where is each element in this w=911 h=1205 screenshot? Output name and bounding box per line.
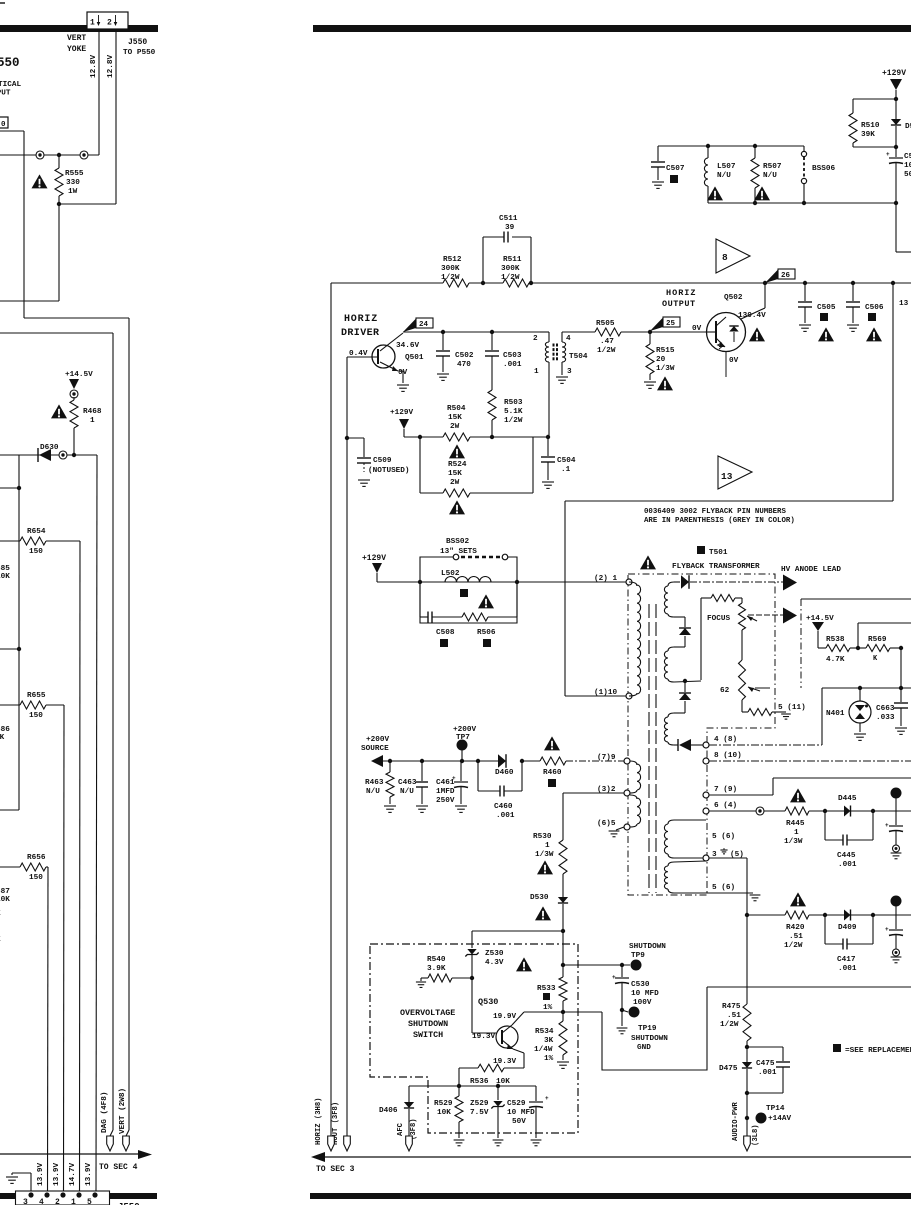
svg-text:12.8V: 12.8V [90,55,98,78]
svg-text:HORIZ: HORIZ [344,314,378,325]
svg-text:1/2W: 1/2W [720,1021,739,1029]
svg-text:R533: R533 [537,985,556,993]
svg-text:8 (10): 8 (10) [714,752,742,760]
svg-text:39K: 39K [861,131,875,139]
svg-text:0K: 0K [0,734,5,742]
svg-text:39: 39 [505,224,515,232]
svg-text:2: 2 [107,19,112,28]
svg-text:1%: 1% [543,1004,553,1012]
svg-text:+129V: +129V [882,69,906,78]
svg-text:R510: R510 [861,122,880,130]
svg-text:T501: T501 [709,549,728,557]
svg-text:OVERVOLTAGE: OVERVOLTAGE [400,1008,455,1018]
svg-text:330: 330 [66,179,80,187]
svg-text:(3L8): (3L8) [752,1124,760,1146]
svg-text:C445: C445 [837,852,856,860]
svg-text:J550: J550 [128,38,147,47]
svg-text:10K: 10K [0,573,10,581]
svg-text:R534: R534 [535,1028,554,1036]
svg-text:C511: C511 [499,215,518,223]
svg-text:R655: R655 [27,692,46,700]
svg-text:SHUTDOWN: SHUTDOWN [408,1019,448,1029]
svg-text:.1: .1 [561,466,571,474]
svg-text:1/3W: 1/3W [535,851,554,859]
svg-text:.47: .47 [600,338,614,346]
svg-text:25: 25 [666,320,676,328]
svg-text:N/U: N/U [400,788,414,796]
svg-text:.51: .51 [789,933,803,941]
svg-text:1: 1 [90,19,95,28]
svg-text:C663: C663 [876,705,895,713]
svg-text:19.3V: 19.3V [472,1033,495,1041]
svg-text:C503: C503 [503,352,522,360]
svg-text:BSS02: BSS02 [446,538,469,546]
svg-text:VERT (2W8): VERT (2W8) [119,1088,127,1134]
svg-text:+129V: +129V [362,554,386,563]
svg-text:1: 1 [71,1198,76,1205]
svg-text:+14.5V: +14.5V [806,615,834,623]
svg-text:AFC: AFC [397,1122,405,1136]
svg-text:7.5V: 7.5V [470,1109,489,1117]
svg-text:6 (4): 6 (4) [714,802,737,810]
svg-text:C505: C505 [817,304,836,312]
svg-text:Q501: Q501 [405,354,424,362]
svg-text:4: 4 [566,335,571,343]
svg-text:(2) 1: (2) 1 [594,575,617,583]
svg-text:C417: C417 [837,956,856,964]
svg-text:19.9V: 19.9V [493,1013,516,1021]
svg-text:TP9: TP9 [631,952,645,960]
svg-text:R460: R460 [543,769,562,777]
svg-text:TP19: TP19 [638,1025,657,1033]
svg-text:L507: L507 [717,163,736,171]
svg-text:N/U: N/U [717,172,731,180]
svg-text:R468: R468 [83,408,102,416]
svg-text:130.4V: 130.4V [738,312,766,320]
svg-text:62: 62 [720,687,730,695]
svg-text:D530: D530 [530,894,549,902]
svg-text:(6)5: (6)5 [597,820,616,828]
svg-text:.001: .001 [758,1069,777,1077]
svg-text:+: + [885,926,889,933]
svg-text:OUTPUT: OUTPUT [662,299,696,309]
svg-text:Q530: Q530 [478,997,498,1007]
svg-text:C508: C508 [436,629,455,637]
svg-text:1/2W: 1/2W [784,942,803,950]
svg-text:0V: 0V [398,369,408,377]
svg-text:T504: T504 [569,353,588,361]
svg-text:C51: C51 [904,153,911,161]
svg-text:.001: .001 [838,861,857,869]
svg-text:1/2W: 1/2W [441,274,460,282]
svg-text:R475: R475 [722,1003,741,1011]
svg-text:SWITCH: SWITCH [413,1030,443,1040]
svg-text:+: + [545,1095,549,1102]
svg-text:D406: D406 [379,1107,398,1115]
svg-text:=SEE REPLACEMENT: =SEE REPLACEMENT [845,1047,911,1055]
svg-text:8: 8 [722,252,728,263]
svg-text:687: 687 [0,888,10,896]
svg-text:1/2W: 1/2W [504,417,523,425]
svg-text:+: + [612,974,616,981]
svg-text:14.7V: 14.7V [69,1163,77,1186]
svg-text:0: 0 [1,121,6,129]
svg-text:C463: C463 [398,779,417,787]
svg-text:GND: GND [637,1044,651,1052]
svg-text:R420: R420 [786,924,805,932]
svg-text:N/U: N/U [366,788,380,796]
svg-text:BSS06: BSS06 [812,165,835,173]
svg-text:0036409 3002 FLYBACK PIN NUMBE: 0036409 3002 FLYBACK PIN NUMBERS [644,508,786,516]
svg-text:R504: R504 [447,405,466,413]
svg-text:5.1K: 5.1K [504,408,523,416]
svg-text:C475: C475 [756,1060,775,1068]
svg-text:D460: D460 [495,769,514,777]
svg-text:R512: R512 [443,256,462,264]
svg-text:10K: 10K [437,1109,451,1117]
svg-text:250V: 250V [436,797,455,805]
svg-text:R540: R540 [427,956,446,964]
svg-text:150: 150 [29,874,43,882]
svg-text:R507: R507 [763,163,782,171]
svg-text:3K: 3K [544,1037,554,1045]
svg-text:TICAL: TICAL [0,81,21,89]
svg-text:1: 1 [545,842,550,850]
svg-text:15K: 15K [448,414,462,422]
svg-text:4: 4 [39,1198,44,1205]
svg-text:150: 150 [29,712,43,720]
svg-text:+200V: +200V [366,736,389,744]
svg-text:15K: 15K [448,470,462,478]
svg-text:13: 13 [899,300,909,308]
svg-text:FLYBACK TRANSFORMER: FLYBACK TRANSFORMER [672,563,760,571]
svg-text:3.9K: 3.9K [427,965,446,973]
svg-text:C529: C529 [507,1100,526,1108]
svg-text:R529: R529 [434,1100,453,1108]
svg-text:2W: 2W [450,479,460,487]
svg-text:R505: R505 [596,320,615,328]
svg-text:C507: C507 [666,165,685,173]
svg-text:N/U: N/U [763,172,777,180]
svg-text:1W: 1W [68,188,78,196]
svg-text:300K: 300K [441,265,460,273]
svg-text:R445: R445 [786,820,805,828]
svg-text:(7)9: (7)9 [597,754,616,762]
svg-text:1MFD: 1MFD [436,788,455,796]
svg-text:2: 2 [533,335,538,343]
svg-text:10K: 10K [0,896,10,904]
svg-text:3: 3 [567,368,572,376]
svg-text:24: 24 [419,321,429,329]
svg-text:YOKE: YOKE [67,45,86,54]
svg-text:686: 686 [0,726,10,734]
svg-text:TO SEC 4: TO SEC 4 [99,1163,138,1172]
svg-text:1/4W: 1/4W [534,1046,553,1054]
svg-text:300K: 300K [501,265,520,273]
svg-text:+: + [452,775,456,782]
svg-text:TPUT: TPUT [0,90,11,98]
svg-text:R506: R506 [477,629,496,637]
svg-text:(NOTUSED): (NOTUSED) [368,467,410,475]
svg-text:4.7K: 4.7K [826,656,845,664]
svg-text:.033: .033 [876,714,895,722]
svg-text:50: 50 [904,171,911,179]
svg-text:1%: 1% [544,1055,554,1063]
svg-text:+14AV: +14AV [768,1115,791,1123]
svg-text:TO SEC 3: TO SEC 3 [316,1165,355,1174]
svg-text:DAG (4F8): DAG (4F8) [101,1091,109,1133]
svg-text:C530: C530 [631,981,650,989]
svg-text:19.3V: 19.3V [493,1058,516,1066]
svg-text:Z530: Z530 [485,950,504,958]
svg-text:13: 13 [721,471,733,482]
svg-text:SOURCE: SOURCE [361,745,389,753]
svg-text:13.9V: 13.9V [53,1163,61,1186]
svg-text:C502: C502 [455,352,474,360]
svg-text:1/2W: 1/2W [597,347,616,355]
svg-text:ARE IN PARENTHESIS (GREY IN CO: ARE IN PARENTHESIS (GREY IN COLOR) [644,517,795,525]
svg-text:FOCUS: FOCUS [707,615,730,623]
svg-text:D409: D409 [838,924,857,932]
svg-text:1/2W: 1/2W [501,274,520,282]
svg-text:R656: R656 [27,854,46,862]
svg-text:C460: C460 [494,803,513,811]
svg-text:10: 10 [904,162,911,170]
svg-text:1: 1 [534,368,539,376]
svg-text:AUDIO-PWR: AUDIO-PWR [732,1101,740,1141]
svg-text:+200V: +200V [453,726,476,734]
svg-text:R463: R463 [365,779,384,787]
svg-text:150: 150 [29,548,43,556]
svg-text:1: 1 [90,417,95,425]
svg-text:13.9V: 13.9V [37,1163,45,1186]
svg-text:SHUTDOWN: SHUTDOWN [631,1035,668,1043]
svg-text:R515: R515 [656,347,675,355]
svg-text:1/3W: 1/3W [656,365,675,373]
svg-text:+14.5V: +14.5V [65,371,93,379]
svg-text:HV ANODE LEAD: HV ANODE LEAD [781,566,841,574]
svg-text:R654: R654 [27,528,46,536]
svg-text:5 (6): 5 (6) [712,884,735,892]
svg-text:100V: 100V [633,999,652,1007]
svg-text:10 MFD: 10 MFD [631,990,659,998]
svg-text:50V: 50V [512,1118,526,1126]
svg-text:3: 3 [23,1198,28,1205]
svg-text:20: 20 [656,356,666,364]
svg-text:N401: N401 [826,710,845,718]
svg-text:.001: .001 [496,812,515,820]
svg-text:TO P550: TO P550 [123,49,156,57]
svg-text:4.3V: 4.3V [485,959,504,967]
svg-text:5 (6): 5 (6) [712,833,735,841]
svg-text:+: + [885,822,889,829]
svg-text:+129V: +129V [390,409,413,417]
svg-text:R530: R530 [533,833,552,841]
svg-text:D445: D445 [838,795,857,803]
svg-text:5: 5 [87,1198,92,1205]
svg-text:13" SETS: 13" SETS [440,548,477,556]
svg-text:Q502: Q502 [724,294,743,302]
svg-text:+: + [886,151,890,158]
svg-text:13.9V: 13.9V [85,1163,93,1186]
svg-text:R511: R511 [503,256,522,264]
svg-text:R524: R524 [448,461,467,469]
svg-text:2: 2 [55,1198,60,1205]
svg-text:R503: R503 [504,399,523,407]
svg-text:HORIZ: HORIZ [666,288,697,298]
svg-text:DRIVER: DRIVER [341,328,379,339]
svg-text:SHUTDOWN: SHUTDOWN [629,943,666,951]
svg-text:HORIZ (3H8): HORIZ (3H8) [315,1098,323,1145]
svg-text:685: 685 [0,565,10,573]
svg-text:.001: .001 [503,361,522,369]
svg-text:1/3W: 1/3W [784,838,803,846]
svg-text:0.4V: 0.4V [349,350,368,358]
svg-text:550: 550 [0,56,20,70]
svg-text:R555: R555 [65,170,84,178]
svg-text:26: 26 [781,272,791,280]
svg-text:VERT: VERT [67,34,86,43]
svg-text:5 (11): 5 (11) [778,704,806,712]
svg-text:.51: .51 [727,1012,741,1020]
svg-text:0V: 0V [692,325,702,333]
svg-text:C506: C506 [865,304,884,312]
svg-text:1: 1 [794,829,799,837]
svg-text:.001: .001 [838,965,857,973]
svg-text:R536: R536 [470,1078,489,1086]
svg-text:D51: D51 [905,123,911,131]
svg-text:4 (8): 4 (8) [714,736,737,744]
svg-text:R538: R538 [826,636,845,644]
svg-text:TP14: TP14 [766,1105,785,1113]
svg-text:R569: R569 [868,636,887,644]
svg-text:C504: C504 [557,457,576,465]
svg-text:10 MFD: 10 MFD [507,1109,535,1117]
svg-text:12.8V: 12.8V [107,55,115,78]
svg-text:0V: 0V [729,357,739,365]
svg-text:Z529: Z529 [470,1100,489,1108]
svg-text:7 (9): 7 (9) [714,786,737,794]
svg-text:470: 470 [457,361,471,369]
svg-text:2W: 2W [450,423,460,431]
svg-text:D475: D475 [719,1065,738,1073]
svg-text:C509: C509 [373,457,392,465]
svg-text:34.6V: 34.6V [396,342,419,350]
